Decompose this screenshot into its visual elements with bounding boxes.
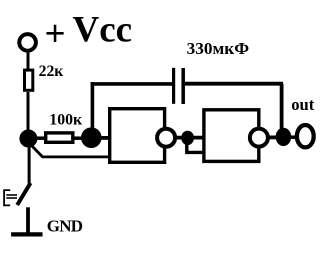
wire: [27, 92, 30, 137]
gate U1 box: [110, 109, 165, 163]
wire: [72, 136, 85, 140]
svg-text:330мкФ: 330мкФ: [187, 39, 250, 58]
node A: [19, 130, 37, 148]
resistor R2 100к: [46, 133, 73, 142]
svg-text:22к: 22к: [39, 63, 65, 80]
wire: [290, 135, 297, 139]
switch SB1 arm: [17, 183, 30, 205]
gate U1 output bubble: [157, 129, 175, 147]
capacitor C1 left plate: [172, 68, 175, 104]
capacitor C1 right plate: [181, 68, 185, 104]
wire: [185, 82, 283, 86]
gate U2 output bubble: [250, 129, 268, 147]
junction dot 1: [181, 131, 194, 145]
wire: [26, 207, 30, 234]
wire: [91, 82, 174, 86]
switch SB1 button: [4, 190, 17, 205]
junction dot 2: [276, 128, 292, 146]
wire: [268, 135, 278, 139]
svg-text:GND: GND: [47, 217, 83, 236]
wire: [280, 84, 284, 133]
wire: [31, 145, 112, 157]
wire: [36, 136, 46, 140]
terminal out: [297, 125, 314, 147]
svg-text:Vcc: Vcc: [73, 10, 133, 51]
resistor R1 22к: [25, 70, 33, 90]
wire: [27, 53, 30, 69]
svg-text:+: +: [45, 13, 66, 54]
gate U2 box: [204, 110, 259, 162]
wire: [98, 136, 110, 140]
svg-text:out: out: [291, 95, 315, 114]
wire: [187, 140, 205, 152]
node B: [81, 127, 102, 148]
wire: [28, 146, 31, 184]
wire: [177, 136, 204, 140]
ground: [11, 232, 42, 236]
svg-text:100к: 100к: [49, 111, 83, 128]
terminal Vcc: [19, 34, 36, 51]
wire: [91, 82, 95, 137]
